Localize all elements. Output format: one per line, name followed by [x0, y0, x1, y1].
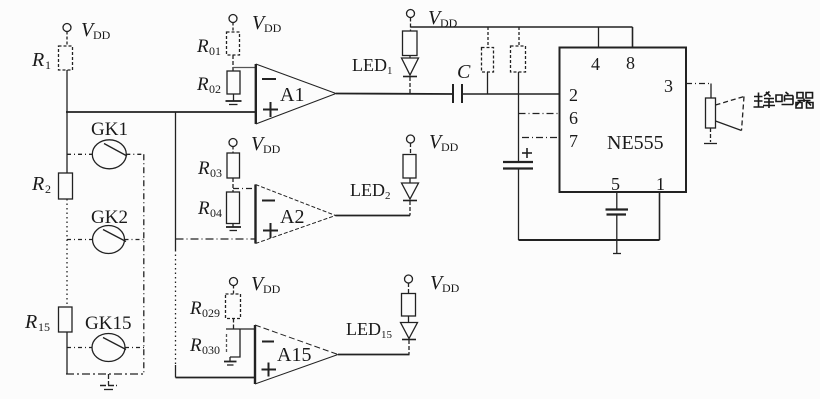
R02 label	[196, 74, 221, 96]
svg-text:C: C	[457, 61, 471, 83]
VDD terminal (left)	[63, 24, 71, 47]
svg-text:GK1: GK1	[91, 119, 128, 140]
VDD label (A15)	[251, 273, 281, 296]
A15 label	[277, 344, 311, 366]
ground (pin 5 cap)	[613, 253, 621, 255]
GK1 label	[91, 119, 128, 140]
R01 label	[196, 36, 221, 58]
capacitor C	[453, 84, 462, 103]
bottom ground rail	[519, 239, 660, 241]
wire node A to R2	[66, 112, 68, 173]
svg-text:A15: A15	[277, 344, 311, 366]
svg-text:DD: DD	[440, 16, 458, 30]
wire R15 to bottom rail	[66, 332, 68, 374]
resistor R04	[227, 192, 240, 224]
wire divider node to A2 minus input (dash)	[233, 188, 256, 190]
svg-text:DD: DD	[263, 282, 281, 296]
resistor R03	[227, 153, 240, 178]
GK2 label	[91, 207, 128, 228]
VDD terminal (LED15)	[405, 275, 413, 294]
node A horizontal wire to A1 plus input	[66, 111, 257, 113]
wire R01 to R02	[232, 55, 234, 71]
pin 5 wire	[616, 192, 618, 209]
wire bus to A15 plus input	[176, 377, 256, 379]
svg-text:1: 1	[656, 174, 665, 194]
A1 output wire	[336, 93, 453, 96]
wire to GK15 left (dashed)	[67, 347, 92, 349]
R15 label	[24, 311, 50, 334]
capacitor (pin 5)	[606, 210, 629, 254]
svg-text:2: 2	[385, 190, 391, 202]
buzzer ground	[704, 128, 717, 144]
svg-text:R: R	[197, 158, 210, 179]
NE555 label	[607, 132, 664, 154]
svg-text:3: 3	[664, 76, 673, 96]
A15 output wire	[338, 354, 410, 356]
wire C to NE555 pin 2	[462, 93, 560, 95]
VDD terminal (A2 divider)	[229, 139, 237, 154]
LED15 diode	[401, 316, 418, 355]
wire divider node to A15 minus input	[226, 328, 255, 330]
wire R03 to R04	[232, 178, 234, 192]
VDD label (A1)	[252, 12, 282, 35]
svg-text:DD: DD	[263, 142, 281, 156]
wire node to GK1 left (dashed)	[67, 153, 92, 155]
buzzer label (蜂鸣器)	[754, 92, 814, 109]
svg-text:NE555: NE555	[607, 132, 664, 154]
LED15 series resistor	[402, 294, 416, 317]
timing resistor RA	[482, 27, 494, 94]
LED1 diode	[402, 56, 419, 94]
bottom dash-dot wire	[66, 373, 144, 375]
svg-text:15: 15	[38, 320, 50, 334]
wire R1 to node A	[66, 70, 68, 112]
wire to pin 6 (dash-dot)	[519, 113, 560, 115]
svg-text:01: 01	[209, 44, 221, 58]
resistor R030	[227, 329, 241, 357]
wire to GK2 left (dashed)	[67, 239, 93, 241]
svg-text:2: 2	[569, 85, 578, 105]
wire GK15 right to bus	[125, 347, 144, 349]
sensor GK2	[93, 226, 127, 254]
timing resistor RB	[511, 27, 526, 162]
wire to pin 7 (dash-dot)	[522, 137, 560, 139]
VDD label (LED2)	[429, 131, 459, 154]
dashed bus (GK common)	[143, 154, 145, 374]
svg-text:A2: A2	[280, 206, 304, 228]
VDD label (A2)	[251, 133, 281, 156]
op-amp A15	[255, 325, 338, 384]
svg-text:GK15: GK15	[85, 313, 131, 334]
svg-text:7: 7	[569, 131, 578, 151]
svg-text:A1: A1	[280, 84, 304, 106]
op-amp A2	[256, 185, 336, 244]
svg-text:03: 03	[210, 166, 222, 180]
resistor R2	[59, 173, 73, 199]
pin 5 label	[611, 174, 620, 194]
LED15 label	[346, 319, 393, 341]
buzzer	[706, 97, 745, 131]
R04 label	[197, 198, 222, 220]
wire GK2 right to bus	[125, 239, 145, 241]
svg-text:5: 5	[611, 174, 620, 194]
ground (below R02)	[226, 94, 242, 105]
pin 4 label	[591, 54, 600, 74]
pin 6 label	[569, 108, 578, 128]
op-amp A1	[256, 64, 336, 124]
sensor GK1	[92, 140, 127, 169]
LED2 label	[350, 180, 391, 202]
LED2 diode	[402, 178, 419, 216]
pin 2 label	[569, 85, 578, 105]
svg-text:R: R	[31, 173, 44, 195]
dotted continuation wire R2 to R15	[66, 199, 68, 307]
svg-text:R: R	[197, 198, 210, 219]
ground (below R04)	[226, 224, 241, 231]
pin 8 label	[626, 53, 635, 73]
VDD label (left)	[81, 19, 111, 42]
R029 label	[189, 298, 220, 320]
R2 label	[31, 173, 51, 196]
svg-text:4: 4	[591, 54, 600, 74]
resistor R029	[226, 294, 241, 319]
A2 output wire	[336, 215, 411, 217]
svg-text:DD: DD	[93, 28, 111, 42]
svg-text:R: R	[189, 335, 202, 356]
C label	[457, 61, 471, 83]
wire bus to A2 plus input (dash-dot)	[176, 238, 256, 240]
R03 label	[197, 158, 222, 180]
R1 label	[31, 49, 51, 72]
svg-text:030: 030	[202, 343, 220, 357]
VDD terminal (A15 divider)	[230, 278, 238, 295]
pin 1 label	[656, 174, 665, 194]
svg-text:LED: LED	[350, 180, 385, 200]
GK15 label	[85, 313, 131, 334]
wire GK1 right to dashed bus	[126, 153, 144, 155]
pin 1 wire	[659, 192, 661, 240]
VDD label (LED1)	[428, 7, 458, 30]
svg-text:LED: LED	[346, 319, 381, 339]
VDD terminal (LED1)	[407, 10, 415, 32]
sensor GK15	[92, 334, 126, 362]
svg-text:R: R	[196, 74, 209, 95]
svg-text:02: 02	[209, 82, 221, 96]
top VDD rail to NE555	[411, 27, 633, 48]
VDD terminal (LED2)	[407, 135, 415, 155]
svg-text:DD: DD	[264, 21, 282, 35]
LED1 label	[352, 55, 393, 77]
svg-text:8: 8	[626, 53, 635, 73]
svg-text:R: R	[189, 298, 202, 319]
VDD terminal (A1 divider)	[229, 15, 237, 33]
svg-text:R: R	[24, 311, 37, 333]
svg-text:R: R	[31, 49, 44, 71]
A1 label	[280, 84, 304, 106]
svg-text:DD: DD	[441, 140, 459, 154]
pin 3 label	[664, 76, 673, 96]
resistor R02	[227, 71, 240, 94]
R030 label	[189, 335, 220, 357]
ground (left chain)	[100, 374, 117, 390]
A2 label	[280, 206, 304, 228]
resistor R15	[59, 307, 73, 332]
svg-text:029: 029	[202, 306, 220, 320]
resistor R01	[227, 32, 240, 55]
svg-text:1: 1	[45, 58, 51, 72]
svg-text:DD: DD	[442, 281, 460, 295]
resistor R1	[59, 46, 73, 70]
ground (below R030)	[224, 357, 237, 365]
LED2 series resistor	[403, 155, 416, 179]
wire divider node to A1 minus input	[233, 67, 256, 69]
pin 3 wire to buzzer (dash-dot)	[686, 84, 711, 99]
svg-text:R: R	[196, 36, 209, 57]
svg-text:6: 6	[569, 108, 578, 128]
svg-text:GK2: GK2	[91, 207, 128, 228]
svg-text:04: 04	[210, 206, 222, 220]
wire R029 to node	[233, 319, 235, 330]
svg-text:LED: LED	[352, 55, 387, 75]
LED1 series resistor	[403, 31, 418, 56]
svg-text:15: 15	[381, 329, 393, 341]
svg-text:2: 2	[45, 182, 51, 196]
pin 7 label	[569, 131, 578, 151]
vertical bus to comparator + inputs	[175, 112, 177, 378]
VDD label (LED15)	[430, 272, 460, 295]
electrolytic capacitor (timing)	[503, 148, 533, 240]
svg-text:1: 1	[387, 65, 393, 77]
NE555 IC body	[560, 48, 687, 193]
